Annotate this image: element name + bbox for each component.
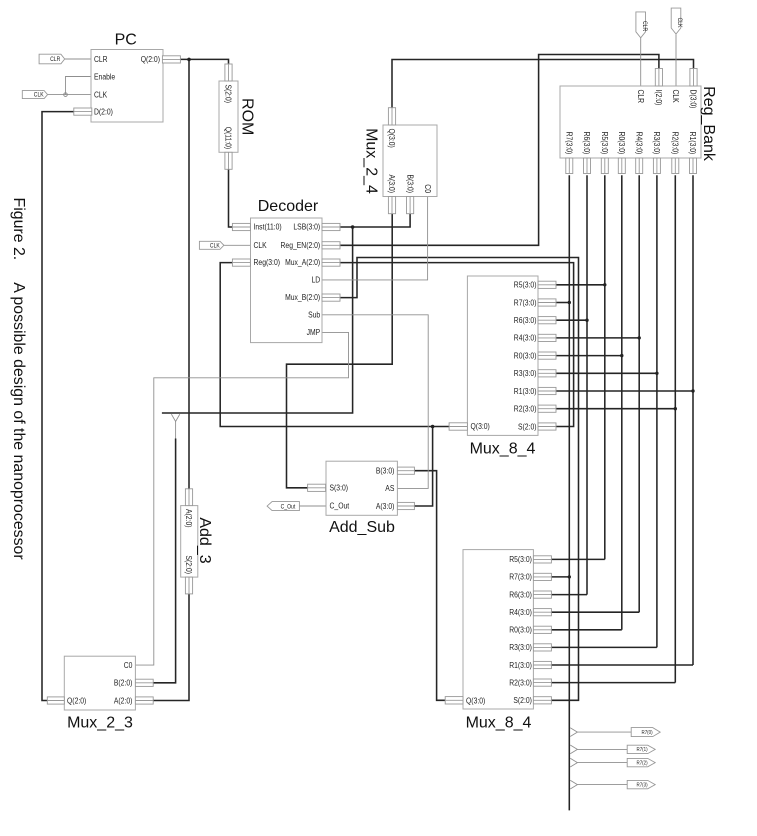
svg-text:Decoder: Decoder [258,198,319,215]
svg-text:R7(3:0): R7(3:0) [509,573,532,582]
block Mux_2_3 [64,656,135,710]
wire Reg_Bank R7(3:0) column [568,175,570,810]
pin Mux_2_3 Q(2:0) [47,697,64,704]
pin Mux_8_4 upper R3(3:0) [538,370,556,377]
wire Mux_8_4 lower input R3(3:0) [551,646,657,648]
pin Mux_2_4 B(3:0) [407,197,414,214]
svg-text:R0(3:0): R0(3:0) [514,351,537,360]
svg-text:R7(3): R7(3) [637,782,648,788]
pin Reg_Bank R6(3:0) [584,158,591,174]
svg-text:Reg_Bank: Reg_Bank [700,86,717,162]
svg-text:R7(2): R7(2) [637,760,648,766]
pin Decoder Reg(3:0) [232,259,250,266]
wire Reg_Bank R1(3:0) column [692,175,694,665]
junction R7 at upper mux [568,301,571,304]
block Decoder [251,218,323,343]
svg-text:AS: AS [385,484,394,493]
wire Mux_8_4 upper input R6(3:0) [556,319,587,321]
svg-text:A(2:0): A(2:0) [184,509,193,528]
svg-text:S(2:0): S(2:0) [224,85,233,104]
svg-text:S(2:0): S(2:0) [518,422,537,431]
pin Mux_8_4 lower R3(3:0) [533,644,551,651]
svg-text:A(2:0): A(2:0) [114,696,133,705]
pin Mux_8_4 lower S(2:0) [533,697,551,704]
wire Add_Sub B(3:0) to Mux_8_4 lower Q(3:0) [414,471,445,701]
svg-text:Mux_8_4: Mux_8_4 [470,440,536,457]
wire tap to R7(0) tag [577,731,631,733]
svg-text:S(2:0): S(2:0) [513,696,532,705]
pin Mux_8_4 upper S(2:0) [538,423,556,430]
pin Mux_8_4 lower R7(3:0) [533,573,551,580]
pin Mux_8_4 upper R1(3:0) [538,387,556,394]
svg-text:Inst(11:0): Inst(11:0) [254,223,282,232]
svg-text:I(2:0): I(2:0) [654,90,663,106]
svg-text:Q(11:0): Q(11:0) [224,127,233,150]
svg-text:R2(3:0): R2(3:0) [671,132,680,155]
svg-text:R6(3:0): R6(3:0) [509,590,532,599]
pin Mux_8_4 lower R5(3:0) [533,556,551,563]
pin Decoder Inst(11:0) [232,223,250,230]
junction LSB branch [351,225,355,229]
svg-text:R7(3:0): R7(3:0) [565,132,574,155]
bus tap R7(0) [570,728,577,737]
junction R7 at lower mux [568,575,571,578]
pin ROM S(2:0) [225,64,232,81]
bus tap R7(2) [570,758,577,767]
svg-text:CLR: CLR [50,57,61,63]
svg-text:R1(3:0): R1(3:0) [688,132,697,155]
pin Mux_2_3 B(2:0) [135,679,153,686]
pin Mux_8_4 lower R6(3:0) [533,591,551,598]
pin Mux_8_4 lower R4(3:0) [533,609,551,616]
pin Mux_8_4 upper R0(3:0) [538,352,556,359]
wire Mux_8_4 upper input R4(3:0) [556,337,639,339]
svg-text:CLR: CLR [636,90,645,104]
svg-text:Reg(3:0): Reg(3:0) [254,258,281,267]
junction Q branch [431,425,435,429]
svg-text:CLK: CLK [676,18,682,28]
wire Decoder JMP to Mux_2_3 C0 [135,332,348,665]
wire tap to R7(2) tag [577,762,627,764]
svg-text:Q(2:0): Q(2:0) [141,55,161,64]
output tag R7(0) [631,728,660,737]
svg-text:Figure 2. A possible desig: Figure 2. A possible design of the nanop… [10,198,27,561]
pin Mux_2_3 A(2:0) [135,697,153,704]
svg-text:D(3:0): D(3:0) [689,90,698,109]
pin PC D(2:0) [74,108,92,115]
wire Reg_Bank R3(3:0) column [656,175,658,647]
svg-text:CLK: CLK [671,90,680,104]
svg-text:R2(3:0): R2(3:0) [509,678,532,687]
wire LSB branch down to bus tap [162,227,353,413]
junction R0 at upper mux [620,354,623,357]
wire Mux_8_4 upper input R3(3:0) [556,372,657,374]
svg-text:CLK: CLK [94,90,108,99]
svg-text:R6(3:0): R6(3:0) [514,316,537,325]
svg-text:C_Out: C_Out [330,502,350,511]
svg-text:C_Out: C_Out [281,505,296,511]
svg-text:LSB(3:0): LSB(3:0) [293,223,320,232]
svg-text:R5(3:0): R5(3:0) [509,555,532,564]
pin Add_3 S(2:0) [185,577,192,594]
wire Mux_8_4 lower input R7(3:0) [551,576,569,578]
svg-text:R0(3:0): R0(3:0) [617,132,626,155]
pin Mux_8_4 upper Q(3:0) [449,423,467,430]
svg-text:C0: C0 [423,184,432,193]
svg-text:Mux_A(2:0): Mux_A(2:0) [285,258,320,267]
wire CLK tag to Reg_Bank CLK [675,35,677,87]
pin Mux_8_4 lower R0(3:0) [533,626,551,633]
svg-text:R7(1): R7(1) [637,747,648,753]
svg-text:JMP: JMP [307,328,321,337]
block Add_3 [181,506,198,577]
input tag CLR reg bank [636,12,646,38]
wire Mux_8_4 lower input R1(3:0) [551,664,693,666]
svg-text:S(2:0): S(2:0) [184,556,193,575]
svg-text:S(3:0): S(3:0) [330,483,349,492]
svg-text:Mux_8_4: Mux_8_4 [466,715,532,732]
wire Mux_8_4 lower input R0(3:0) [551,629,621,631]
wire Mux_8_4 upper Q(3:0) to Decoder Reg(3:0) [220,263,449,427]
wire ROM Q(11:0) to Decoder Inst(11:0) [229,169,233,227]
pin Reg_Bank R5(3:0) [601,158,608,174]
wire Reg_Bank R0(3:0) column [621,175,623,630]
wire Mux_8_4 lower input R2(3:0) [551,682,675,684]
svg-text:Enable: Enable [94,72,116,81]
pin Mux_2_4 Q(3:0) [388,108,395,125]
wire Decoder Sub to Add_Sub AS [322,315,428,489]
svg-text:R2(3:0): R2(3:0) [514,405,537,414]
wire Q branch to Add_Sub A(3:0) [414,427,432,507]
wire Mux_8_4 lower input R6(3:0) [551,594,587,596]
pin Add_Sub A(3:0) [397,502,414,509]
pin Decoder LSB(3:0) [322,223,340,230]
block PC [91,50,163,123]
svg-text:R4(3:0): R4(3:0) [509,608,532,617]
junction R3 at upper mux [655,372,658,375]
pin Mux_8_4 lower Q(3:0) [445,697,463,704]
pin Add_Sub B(3:0) [397,467,414,474]
wire Mux_8_4 lower input R5(3:0) [551,558,604,560]
wire CLR tag to Reg_Bank CLR [640,38,642,87]
svg-text:R3(3:0): R3(3:0) [652,132,661,155]
svg-text:CLK: CLK [34,93,44,99]
svg-text:Add_3: Add_3 [196,517,213,563]
wire Mux_8_4 upper input R7(3:0) [556,302,569,304]
svg-text:R7(0): R7(0) [642,730,653,736]
pin Mux_8_4 upper R5(3:0) [538,281,556,288]
pin Mux_8_4 upper R2(3:0) [538,405,556,412]
wire CLR tag to PC CLR [65,58,91,60]
svg-text:R6(3:0): R6(3:0) [582,132,591,155]
svg-text:CLK: CLK [210,243,220,249]
wire Add_3 S(2:0) to Mux_2_3 A(2:0) [153,594,189,701]
svg-text:B(2:0): B(2:0) [114,679,133,688]
pin Reg_Bank R1(3:0) [690,158,697,174]
pin Mux_8_4 lower R2(3:0) [533,679,551,686]
junction R6 at upper mux [585,319,588,322]
junction R4 at upper mux [638,336,641,339]
svg-text:Q(3:0): Q(3:0) [387,129,396,149]
wire Mux_8_4 upper input R5(3:0) [556,284,605,286]
svg-text:R5(3:0): R5(3:0) [600,132,609,155]
block ROM [219,81,238,152]
pin Reg_Bank R0(3:0) [618,158,625,174]
svg-text:Q(3:0): Q(3:0) [471,422,491,431]
wire Reg_Bank R5(3:0) column [604,175,606,559]
svg-text:R7(3:0): R7(3:0) [514,298,537,307]
block Add_Sub [326,461,397,515]
pin Decoder Mux_A(2:0) [322,259,340,266]
svg-text:D(2:0): D(2:0) [94,107,113,116]
wire Mux_8_4 upper input R1(3:0) [556,390,693,392]
wire Reg_Bank R6(3:0) column [586,175,588,594]
wire Decoder Reg_EN(2:0) to Reg_Bank I(2:0) [340,55,659,246]
wire CLK tag to PC CLK [48,94,91,96]
svg-text:R4(3:0): R4(3:0) [514,334,537,343]
bus tap Y to Mux_2_3 B(2:0) [171,414,179,421]
wire Reg_Bank R4(3:0) column [638,175,640,612]
wire Mux_8_4 upper input R0(3:0) [556,355,622,357]
pin Reg_Bank R4(3:0) [636,158,643,174]
svg-text:LD: LD [312,276,321,285]
svg-text:ROM: ROM [239,98,256,135]
svg-text:CLK: CLK [254,241,268,250]
wire Mux_2_4 Q(3:0) to Reg_Bank D(3:0) [392,60,694,108]
svg-text:R1(3:0): R1(3:0) [509,661,532,670]
bus tap R7(3) [570,780,577,789]
output tag C_Out [267,502,299,511]
svg-text:R0(3:0): R0(3:0) [509,626,532,635]
pin Reg_Bank R2(3:0) [672,158,679,174]
pin Decoder Mux_B(2:0) [322,294,340,301]
wire Mux_8_4 upper input R2(3:0) [556,408,675,410]
wire Add_Sub S(3:0) to Mux_2_4 A(3:0) [287,214,393,488]
pin Decoder Reg_EN(2:0) [322,242,340,249]
wire CLK tag to Decoder CLK [224,244,251,246]
input tag CLR [39,54,65,64]
wire Decoder LD to Mux_2_4 C0 [322,197,428,280]
svg-text:B(3:0): B(3:0) [376,467,395,476]
output tag R7(1) [627,745,655,753]
pin Mux_8_4 upper R6(3:0) [538,317,556,324]
svg-text:Mux_2_3: Mux_2_3 [67,715,133,732]
output tag R7(3) [627,780,655,788]
wire C_Out tag to Add_Sub C_Out [299,505,326,507]
svg-text:Sub: Sub [308,310,321,319]
svg-text:CLR: CLR [94,55,108,64]
svg-text:Mux_2_4: Mux_2_4 [363,128,380,194]
wire CLK branch to PC Enable [66,77,92,95]
junction CLK branch [64,93,68,97]
svg-text:C0: C0 [124,661,133,670]
wire PC Q branch to Add_3 A(2:0) [188,59,190,488]
input tag CLK [22,91,47,99]
input tag CLK reg bank [671,8,681,34]
junction R1 at upper mux [691,389,694,392]
pin Add_3 A(2:0) [185,489,192,506]
svg-text:R5(3:0): R5(3:0) [514,281,537,290]
junction PC Q branch [187,58,191,62]
svg-text:R1(3:0): R1(3:0) [514,387,537,396]
wire Decoder Mux_A(2:0) to Mux_8_4 upper S(2:0) [340,263,573,427]
block Mux_8_4 lower [463,550,533,709]
pin Reg_Bank R7(3:0) [566,158,573,174]
svg-text:Mux_B(2:0): Mux_B(2:0) [285,293,320,302]
pin Mux_2_4 A(3:0) [388,197,395,214]
input tag CLK decoder [199,241,224,249]
pin Add_Sub S(3:0) [308,484,326,491]
svg-text:Reg_EN(2:0): Reg_EN(2:0) [281,241,321,250]
svg-text:R3(3:0): R3(3:0) [509,643,532,652]
svg-text:R3(3:0): R3(3:0) [514,369,537,378]
wire tap to R7(3) tag [577,784,627,786]
pin Reg_Bank I(2:0) [655,69,662,87]
pin Mux_8_4 lower R1(3:0) [533,661,551,668]
block Mux_8_4 upper [467,276,538,435]
svg-text:Q(3:0): Q(3:0) [466,696,486,705]
block Reg_Bank [560,86,701,158]
wire Reg_Bank R2(3:0) column [674,175,676,682]
junction R2 at upper mux [674,407,677,410]
svg-text:Add_Sub: Add_Sub [329,519,395,536]
pin Mux_8_4 upper R7(3:0) [538,299,556,306]
output tag R7(2) [627,758,655,766]
wire Decoder Mux_B(2:0) to Mux_8_4 lower S(2:0) [340,258,578,701]
svg-text:PC: PC [115,32,137,49]
wire Decoder LSB(3:0) to Mux_2_4 B(3:0) [340,214,410,227]
pin ROM Q(11:0) [225,152,232,169]
wire tap to R7(1) tag [577,748,627,750]
pin Reg_Bank D(3:0) [690,69,697,87]
wire PC Q(2:0) to ROM S(2:0) [180,59,228,63]
pin PC Q(2:0) [162,56,180,63]
bus tap R7(1) [570,745,577,754]
pin Mux_8_4 upper R4(3:0) [538,334,556,341]
svg-text:R4(3:0): R4(3:0) [634,132,643,155]
svg-text:B(3:0): B(3:0) [405,175,414,194]
svg-text:A(3:0): A(3:0) [387,175,396,194]
svg-text:Q(2:0): Q(2:0) [67,696,87,705]
svg-text:A(3:0): A(3:0) [376,502,395,511]
wire Mux_8_4 lower input R4(3:0) [551,611,639,613]
wire Mux_2_3 Q(2:0) to PC D(2:0) [42,112,74,701]
block Mux_2_4 [383,125,437,197]
junction R5 at upper mux [603,283,606,286]
svg-text:CLR: CLR [641,21,647,32]
pin Reg_Bank R3(3:0) [653,158,660,174]
